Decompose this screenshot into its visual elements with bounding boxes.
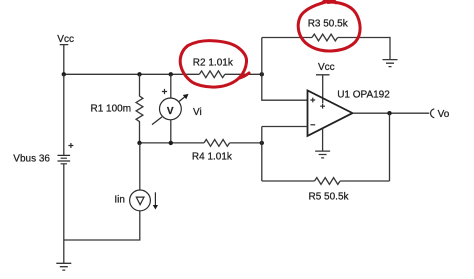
voltmeter plus — [162, 89, 167, 94]
node dot R1 top — [137, 72, 141, 76]
svg-text:Iin: Iin — [114, 195, 125, 206]
wire top rail right of R2 — [225, 73, 262, 75]
resistor R4 — [204, 140, 230, 147]
current source external arrow — [153, 192, 158, 209]
voltmeter Vi wire top — [170, 74, 172, 98]
wire top rail left — [64, 73, 200, 75]
battery V1 wire top — [63, 74, 65, 155]
ground R3 — [383, 60, 398, 67]
current source triangle — [136, 197, 144, 205]
wire R3 right — [338, 38, 390, 60]
battery plus sign — [68, 143, 73, 148]
annotation red pen start blob — [323, 0, 337, 3]
svg-text:R5 50.5k: R5 50.5k — [309, 191, 350, 202]
op-amp U1 triangle — [308, 90, 353, 135]
svg-text:Vcc: Vcc — [57, 34, 74, 45]
svg-text:V: V — [167, 106, 174, 117]
node dot A — [260, 72, 264, 76]
ground op-amp — [315, 151, 330, 158]
voltmeter wire bottom — [170, 120, 172, 143]
node dot voltmeter bottom — [169, 141, 173, 145]
annotation red circle around R3 — [298, 1, 360, 51]
svg-text:Vcc: Vcc — [318, 62, 335, 73]
node dot output — [387, 111, 391, 115]
power Vcc opamp symbol — [316, 75, 330, 104]
node B vertical wire — [262, 127, 308, 182]
node dot R1 bottom — [137, 141, 141, 145]
wire output — [353, 112, 430, 114]
svg-text:Vi: Vi — [193, 107, 202, 118]
wire mid rail right — [230, 142, 262, 144]
node A vertical wire — [262, 38, 308, 101]
op-amp minus input mark — [310, 124, 315, 126]
svg-text:R2 1.01k: R2 1.01k — [193, 58, 234, 69]
voltmeter arrow — [152, 94, 189, 125]
resistor R5 — [315, 178, 341, 185]
wire mid rail — [140, 142, 205, 144]
svg-text:R1 100m: R1 100m — [91, 104, 132, 115]
svg-text:R3 50.5k: R3 50.5k — [308, 18, 349, 29]
op-amp supply plus mark — [320, 104, 325, 109]
wire R5 right — [340, 180, 389, 182]
power Vcc left symbol — [60, 45, 69, 75]
wire R5 left — [262, 180, 315, 182]
svg-text:Vbus 36: Vbus 36 — [13, 154, 50, 165]
node dot voltmeter top — [169, 72, 173, 76]
svg-text:R4 1.01k: R4 1.01k — [192, 152, 233, 163]
ground battery — [56, 240, 71, 270]
right feedback vertical wire — [389, 113, 391, 181]
wire R3 left — [262, 37, 312, 39]
op-amp plus input mark — [310, 98, 315, 103]
annotation red circle around R2 — [180, 41, 249, 87]
battery V1 plates — [58, 155, 71, 163]
current source circle — [130, 190, 151, 211]
svg-text:Vo: Vo — [438, 109, 450, 120]
node dot B — [260, 141, 264, 145]
resistor R1 — [136, 74, 143, 143]
wire bottom rail — [64, 211, 140, 240]
current source Iin wire top — [139, 143, 141, 190]
resistor R2 — [199, 71, 225, 78]
node dot Vcc/battery — [62, 72, 66, 76]
svg-text:U1 OPA192: U1 OPA192 — [337, 89, 390, 100]
resistor R3 — [312, 34, 338, 41]
output port symbol — [431, 109, 435, 118]
voltmeter circle — [160, 98, 182, 120]
op-amp ground stem — [322, 129, 324, 151]
battery V1 wire bottom — [63, 164, 65, 240]
